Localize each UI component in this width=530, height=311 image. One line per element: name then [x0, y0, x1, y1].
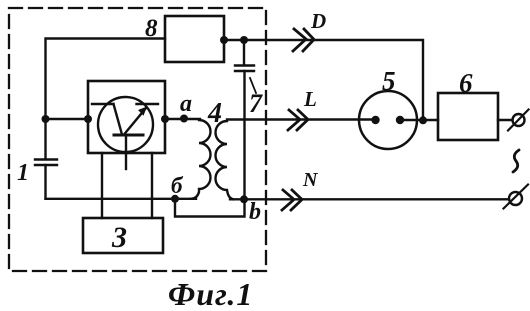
- connector 5 left contact: [371, 116, 379, 124]
- svg-text:L: L: [303, 87, 317, 111]
- arrow L chevrons: [288, 110, 308, 130]
- terminal phase: [513, 114, 525, 126]
- wire N line: [244, 198, 509, 200]
- wire L line: [227, 118, 375, 120]
- terminal neutral: [509, 192, 522, 205]
- svg-text:7: 7: [249, 89, 263, 118]
- transistor Q1 base lead: [125, 136, 127, 169]
- wire loop b1 to b2: [175, 199, 245, 217]
- node a: [180, 115, 188, 123]
- transistor Q1 emitter arrow: [124, 108, 146, 135]
- capacitor C7 top lead: [243, 40, 245, 65]
- wire transistor to node a: [165, 118, 200, 120]
- block 3: [83, 218, 163, 253]
- block 6: [438, 93, 498, 140]
- wire box bottom to block3 left: [101, 153, 103, 218]
- node dot at box left: [84, 115, 92, 123]
- capacitor C1 top lead: [44, 119, 46, 159]
- svg-text:5: 5: [382, 66, 396, 96]
- transistor Q1 base bar: [114, 134, 143, 137]
- wire block6 to phase terminal: [498, 119, 513, 121]
- svg-text:3: 3: [111, 221, 127, 254]
- transformer T4 primary winding: [191, 120, 211, 199]
- node junction dot left: [42, 115, 50, 123]
- wire block8 left to node: [46, 39, 166, 120]
- dashed enclosure: [9, 8, 266, 271]
- svg-text:1: 1: [17, 160, 29, 186]
- svg-text:б: б: [171, 173, 184, 198]
- transistor unit box: [88, 81, 165, 153]
- capacitor C7 bottom lead: [243, 71, 245, 199]
- wire node to transistor box: [46, 118, 89, 120]
- node b: [240, 195, 248, 203]
- wire winding bottom to node b: [230, 198, 244, 200]
- svg-text:Фиг.1: Фиг.1: [168, 276, 253, 311]
- svg-text:N: N: [302, 169, 319, 191]
- node dot at box right: [161, 115, 169, 123]
- svg-text:6: 6: [459, 68, 473, 98]
- arrow N chevrons: [282, 190, 302, 210]
- arrow D chevrons: [293, 29, 314, 51]
- transformer T4 secondary winding: [216, 121, 234, 199]
- node б: [171, 195, 179, 203]
- wire connector to block 6: [400, 119, 438, 121]
- connector 5 right contact: [396, 116, 404, 124]
- connector 5 circle: [359, 91, 417, 149]
- AC tilde: [513, 150, 519, 172]
- capacitor C7 plates: [235, 66, 254, 72]
- capacitor C1 plates: [35, 160, 57, 166]
- junction dot D drop: [419, 116, 427, 124]
- svg-text:b: b: [249, 199, 261, 225]
- wire box bottom to block3 right: [151, 153, 153, 218]
- junction dot at block8 output: [220, 36, 228, 44]
- junction dot cap7 top: [240, 36, 248, 44]
- wire D line: [224, 40, 423, 120]
- label 7 leader: [250, 78, 256, 93]
- svg-text:a: a: [180, 91, 192, 117]
- transistor Q1 circle: [98, 97, 153, 152]
- transistor Q1 left slant: [114, 104, 123, 135]
- capacitor C1 bottom lead: [44, 165, 46, 199]
- wire emitter rail to node b1: [46, 198, 197, 200]
- transistor Q1 left lead bar: [92, 103, 114, 105]
- svg-text:D: D: [310, 9, 326, 33]
- transistor Q1 right lead bar: [137, 103, 159, 105]
- block 8: [165, 16, 224, 62]
